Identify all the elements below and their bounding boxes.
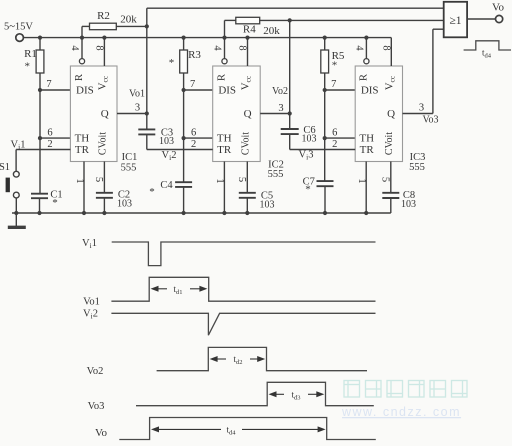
svg-text:3: 3 — [278, 103, 283, 114]
svg-text:555: 555 — [121, 163, 137, 174]
svg-text:R: R — [74, 74, 85, 81]
svg-text:103: 103 — [260, 200, 275, 211]
svg-text:555: 555 — [268, 169, 284, 180]
resistor R4 20k — [236, 17, 280, 37]
resistor R3 — [180, 50, 188, 73]
pin number 7 stage 1 — [46, 79, 51, 90]
wire ground rail — [12, 212, 391, 214]
pin number 6 stage 3 — [332, 128, 337, 139]
node Vi2 label — [162, 150, 177, 162]
svg-text:5: 5 — [236, 177, 247, 182]
pin 4 reset bubble stage 2 — [222, 36, 227, 64]
decorative watermark — [344, 381, 467, 398]
node Vo1 junction — [145, 111, 149, 115]
svg-text:R2: R2 — [97, 10, 110, 22]
svg-text:8: 8 — [380, 45, 391, 50]
wire DIS pin7 stage 1 — [38, 88, 71, 92]
waveform Vi2 — [83, 309, 375, 336]
svg-text:Vo: Vo — [492, 2, 505, 14]
resistor R1 — [36, 50, 44, 73]
pin label 8 stage 1 — [93, 45, 104, 50]
svg-text:5: 5 — [380, 177, 391, 182]
wire DIS pin7 stage 3 — [323, 88, 356, 92]
wire TH pin6 stage 2 — [182, 136, 213, 140]
svg-text:5~15V: 5~15V — [4, 22, 33, 33]
svg-text:1: 1 — [214, 178, 225, 183]
pin number 6 stage 1 — [47, 128, 52, 139]
wire timing node stage 1 — [39, 38, 41, 194]
pin label 8 stage 3 — [380, 45, 391, 50]
pin 1 ground wire stage 2 — [214, 162, 226, 216]
wire Q output IC3 pin3 to OR gate — [403, 29, 444, 125]
svg-text:2: 2 — [47, 139, 52, 150]
svg-text:R: R — [358, 74, 369, 81]
svg-text:CVoit: CVoit — [97, 132, 108, 155]
pin 4 reset bubble stage 3 — [364, 36, 369, 64]
pin number 6 stage 2 — [191, 128, 196, 139]
pin label 8 stage 2 — [237, 45, 248, 50]
svg-text:≥1: ≥1 — [449, 15, 461, 27]
svg-text:4: 4 — [69, 45, 80, 51]
svg-text:TH: TH — [75, 133, 90, 145]
svg-text:TH: TH — [217, 133, 232, 145]
svg-text:*: * — [305, 184, 311, 196]
svg-text:103: 103 — [302, 134, 317, 145]
svg-text:IC1: IC1 — [122, 152, 138, 163]
svg-text:8: 8 — [93, 45, 104, 50]
svg-text:4: 4 — [353, 45, 364, 51]
svg-text:103: 103 — [117, 199, 132, 210]
svg-text:Vi2: Vi2 — [162, 150, 177, 162]
svg-text:5: 5 — [93, 177, 104, 182]
svg-text:R3: R3 — [188, 49, 201, 61]
capacitor C6 103 coupling — [281, 20, 356, 149]
node R2-Vo1 junction — [145, 24, 149, 28]
pin number 7 stage 3 — [331, 79, 336, 90]
node rail junction R1 — [38, 36, 42, 40]
wire timing node stage 2 — [183, 38, 185, 183]
or-gate U1 — [444, 2, 467, 38]
pin 5 wire stage 2 — [236, 162, 247, 193]
node Vi1 label — [11, 140, 26, 152]
svg-text:7: 7 — [190, 79, 195, 90]
svg-text:6: 6 — [47, 128, 52, 139]
svg-text:Vi1: Vi1 — [11, 140, 26, 152]
wire TR Vi1 stage 1 — [16, 150, 70, 172]
dimension td3 — [269, 390, 325, 402]
svg-text:2: 2 — [191, 139, 196, 150]
svg-text:8: 8 — [237, 45, 248, 50]
pin number 7 stage 2 — [190, 79, 195, 90]
resistor label R1 — [24, 48, 37, 73]
svg-text:C4: C4 — [160, 180, 173, 191]
pin label 4 stage 2 — [212, 45, 223, 51]
resistor R2 20k — [82, 10, 147, 37]
svg-text:Vo1: Vo1 — [129, 88, 145, 99]
svg-text:3: 3 — [419, 103, 424, 114]
pin 1 ground wire stage 3 — [356, 162, 368, 216]
svg-text:4: 4 — [212, 45, 223, 51]
resistor R5 — [321, 50, 329, 73]
pin label 4 stage 3 — [353, 45, 364, 51]
wire Q output IC1 pin3 — [117, 88, 147, 113]
label IC2 555 — [268, 160, 284, 181]
decorative watermark url — [341, 405, 461, 419]
switch S1 pushbutton — [0, 162, 19, 198]
svg-text:Vo: Vo — [95, 427, 108, 439]
capacitor C3 103 coupling — [138, 114, 212, 150]
svg-text:Vi3: Vi3 — [299, 150, 314, 162]
pin 5 wire stage 3 — [380, 162, 391, 193]
label IC1 555 — [121, 152, 138, 174]
svg-text:*: * — [169, 57, 175, 69]
svg-text:*: * — [25, 61, 31, 73]
svg-text:Vi2: Vi2 — [83, 309, 98, 321]
pin number 2 stage 1 — [47, 139, 52, 150]
waveform Vo2 — [87, 347, 367, 377]
pin 4 reset bubble stage 1 — [79, 36, 84, 64]
resistor label R5 — [332, 50, 345, 72]
svg-text:7: 7 — [331, 79, 336, 90]
pin 1 ground wire stage 1 — [74, 162, 86, 216]
pin 8 Vcc wire stage 1 — [102, 36, 106, 67]
svg-text:103: 103 — [401, 199, 416, 210]
svg-text:Vo3: Vo3 — [423, 115, 439, 126]
svg-text:2: 2 — [332, 139, 337, 150]
svg-text:Q: Q — [244, 108, 252, 120]
wire OR output Vo — [467, 2, 504, 23]
node rail junction R3 — [182, 36, 186, 40]
op IC1 555 body — [70, 66, 117, 162]
wire Vcc rail — [23, 37, 391, 39]
svg-text:555: 555 — [409, 162, 425, 173]
svg-text:Q: Q — [101, 108, 109, 120]
waveform sketch td4 at gate — [464, 41, 511, 60]
svg-text:Vo2: Vo2 — [87, 366, 104, 377]
capacitor C4 — [149, 180, 192, 215]
svg-text:*: * — [52, 197, 58, 209]
svg-text:Q: Q — [387, 108, 395, 120]
svg-text:Vi1: Vi1 — [82, 238, 97, 250]
svg-text:R1: R1 — [24, 48, 37, 60]
svg-text:CVoit: CVoit — [240, 132, 251, 155]
wire Vo2 to OR gate input 2 — [225, 20, 444, 37]
power terminal 5~15V — [4, 22, 33, 42]
svg-text:S1: S1 — [0, 162, 10, 173]
svg-text:DIS: DIS — [361, 85, 379, 97]
svg-text:3: 3 — [135, 103, 140, 114]
pin 5 wire stage 1 — [93, 162, 104, 193]
pin label 4 stage 1 — [69, 45, 80, 51]
svg-text:www. cndzz. com: www. cndzz. com — [341, 405, 461, 419]
wire Vo1 to OR gate input 1 — [147, 8, 444, 113]
svg-text:TR: TR — [360, 144, 375, 156]
wire TH pin6 stage 3 — [323, 136, 356, 140]
svg-text:Vo2: Vo2 — [272, 86, 288, 97]
pin number 2 stage 3 — [332, 139, 337, 150]
waveform Vo3 — [88, 382, 374, 412]
svg-text:1: 1 — [356, 178, 367, 183]
svg-text:*: * — [332, 60, 338, 72]
node rail junction R5 — [323, 36, 327, 40]
node Vo2 junction — [288, 111, 292, 115]
dimension td4 — [151, 425, 326, 437]
label IC3 555 — [409, 152, 425, 173]
svg-text:*: * — [149, 186, 155, 198]
pin number 2 stage 2 — [191, 139, 196, 150]
waveform Vo — [95, 418, 376, 440]
svg-text:103: 103 — [159, 136, 174, 147]
capacitor C1 — [31, 190, 63, 216]
ground symbol — [8, 213, 26, 227]
waveform Vo1 — [83, 277, 375, 307]
svg-text:DIS: DIS — [76, 85, 94, 97]
wire timing node stage 3 — [324, 38, 326, 182]
dimension td2 — [210, 354, 266, 366]
wire TH pin6 stage 1 — [38, 136, 71, 140]
svg-text:6: 6 — [191, 128, 196, 139]
waveform Vi1 — [82, 238, 375, 266]
capacitor C7 — [303, 177, 334, 216]
op IC2 555 body — [213, 66, 261, 162]
svg-text:Vo1: Vo1 — [83, 297, 100, 308]
svg-text:20k: 20k — [263, 25, 280, 37]
resistor label R3 — [169, 49, 202, 69]
svg-text:1: 1 — [74, 178, 85, 183]
svg-text:Vo3: Vo3 — [88, 401, 105, 412]
svg-text:TH: TH — [359, 133, 374, 145]
svg-text:DIS: DIS — [218, 85, 236, 97]
node Vi3 label — [299, 150, 314, 162]
svg-text:7: 7 — [46, 79, 51, 90]
pin 8 Vcc wire stage 3 — [390, 38, 392, 66]
capacitor C2 103 — [96, 190, 132, 216]
svg-text:TR: TR — [217, 144, 232, 156]
svg-text:CVoit: CVoit — [384, 132, 395, 155]
capacitor C8 103 — [382, 190, 416, 213]
capacitor C5 103 — [239, 191, 275, 216]
node R4-Vo2 junction — [288, 18, 292, 22]
op IC3 555 body — [355, 66, 402, 162]
wire Q output IC2 pin3 — [260, 86, 290, 114]
wire DIS pin7 stage 2 — [182, 88, 213, 92]
svg-text:R: R — [217, 74, 228, 81]
dimension td1 — [151, 284, 208, 296]
wire S1 to ground rail — [14, 198, 18, 215]
svg-text:R4: R4 — [243, 24, 256, 36]
svg-text:TR: TR — [75, 144, 90, 156]
pin 8 Vcc wire stage 2 — [245, 36, 249, 67]
svg-text:20k: 20k — [120, 13, 137, 25]
svg-text:6: 6 — [332, 128, 337, 139]
